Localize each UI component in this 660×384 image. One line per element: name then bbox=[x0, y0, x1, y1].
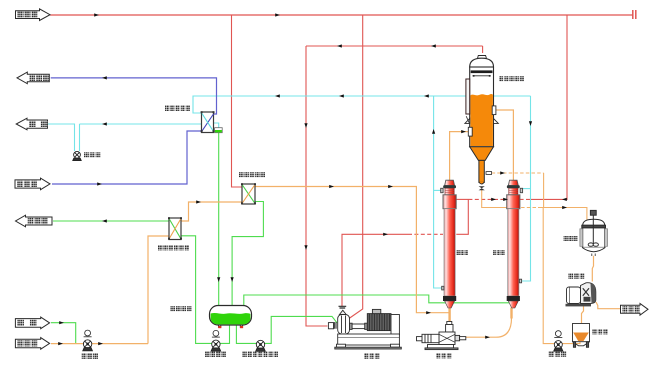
label compressor (yasuoji) bbox=[364, 353, 380, 358]
instrument above feed pump P1 bbox=[84, 330, 92, 337]
wire heater E2 bottom tube bbox=[510, 308, 512, 319]
steam header end terminator bbox=[633, 10, 636, 19]
compressor C1 bbox=[328, 306, 401, 349]
vacuum pump P5 bbox=[73, 151, 81, 160]
tail gas condenser E3 bbox=[201, 111, 215, 132]
flow arrow bbox=[426, 311, 431, 314]
flag tower water out (tashuichu) bbox=[17, 72, 49, 84]
wire seal pot drain to condensate tank bbox=[218, 133, 220, 305]
wire crystals out to flag bbox=[596, 302, 621, 309]
wire centrifuge liquor to mother liquor tank bbox=[582, 306, 584, 323]
heater E1 (left) bbox=[443, 180, 456, 308]
wire mother liquor return riser bbox=[543, 208, 554, 344]
condensate preheater E5 bbox=[168, 217, 182, 239]
flow arrow bbox=[432, 129, 435, 134]
flow arrow bbox=[500, 171, 505, 174]
crystal separator V1 bbox=[465, 56, 498, 191]
flow arrow bbox=[217, 277, 220, 282]
wire vent gas header to condenser bbox=[193, 96, 531, 113]
instrument above mother liquor pump P4 bbox=[554, 331, 562, 338]
wire heater E1 upper vent stub bbox=[434, 189, 441, 191]
flow arrow bbox=[485, 336, 490, 339]
flow arrow bbox=[424, 94, 429, 97]
label feed pump (jinliaobeng) bbox=[82, 354, 99, 359]
flow arrow bbox=[431, 44, 436, 47]
flow arrow bbox=[59, 321, 64, 324]
slurry tank V3 bbox=[580, 210, 608, 256]
wire water in line bbox=[51, 323, 76, 343]
wire preheated feed to heater E1 bottom bbox=[255, 187, 449, 313]
flow arrow bbox=[58, 342, 63, 345]
flow arrow bbox=[275, 94, 280, 97]
label vacuum pump (zhenkongbeng) bbox=[84, 152, 101, 157]
flow arrow bbox=[339, 94, 344, 97]
condensate tank V2 bbox=[210, 306, 252, 329]
label heater E1 (jiareqi) bbox=[457, 250, 469, 255]
wire cooling water out line bbox=[51, 78, 217, 114]
heater E2 (right) bbox=[507, 180, 520, 308]
mother liquor tank V4 bbox=[573, 324, 590, 348]
flag steam in (zhengqijin) bbox=[16, 9, 51, 21]
wire compressed steam riser to heaters bbox=[456, 199, 468, 234]
wire heater shell condensate return to tank bbox=[244, 295, 510, 305]
flow arrow bbox=[304, 123, 307, 128]
flow arrow bbox=[275, 13, 280, 16]
flag tower water in (tashuijin) bbox=[15, 178, 50, 190]
wire compressor discharge riser bbox=[342, 234, 408, 306]
label crystal separator (jiejingfenliqi) bbox=[499, 76, 524, 81]
wire cooling water in line bbox=[52, 131, 202, 184]
label mother liquor tank (muyeguan) bbox=[592, 329, 608, 334]
wire slurry tank to centrifuge bbox=[592, 256, 593, 282]
wire main steam header y15 bbox=[50, 14, 633, 16]
centrifuge M1 bbox=[566, 283, 596, 307]
flow arrow bbox=[98, 342, 103, 345]
flow arrow bbox=[304, 245, 307, 250]
label heater E2 (jiareqi) bbox=[493, 250, 505, 255]
feed pump P1 bbox=[83, 340, 93, 351]
flow arrow bbox=[388, 185, 393, 188]
wire mother liquor tank to pump bbox=[562, 342, 580, 344]
flag feed in (liaoyejin) bbox=[15, 338, 49, 350]
flow arrow bbox=[102, 122, 107, 125]
wire slurry line dashed behind heater E2 bbox=[504, 207, 538, 209]
wire side outlet down leg bbox=[543, 173, 545, 208]
flow arrow bbox=[102, 219, 107, 222]
wire steam branch to steam preheater bbox=[232, 15, 243, 187]
flag water in (shuijin) bbox=[15, 317, 49, 329]
label condensate preheater (lengningshuiyureqi) bbox=[158, 245, 189, 250]
label slurry tank (jingjiangguan) bbox=[564, 236, 578, 241]
flow arrow bbox=[562, 206, 567, 209]
label axial flow pump (zhouliubeng) bbox=[436, 353, 452, 358]
wire steam into heater E1 top nozzle bbox=[456, 198, 470, 200]
label mother liquor pump (muyebeng) bbox=[549, 351, 567, 356]
label centrifuge (lixinji) bbox=[569, 274, 585, 279]
axial flow pump P6 bbox=[417, 322, 466, 350]
wire steam preheater drain to tank bbox=[232, 202, 263, 306]
flag crystal out (jingtichu) bbox=[621, 304, 649, 316]
wire condensate out to flag bbox=[53, 220, 169, 222]
steam preheater E4 bbox=[241, 183, 256, 204]
wire heater E2 riser to separator bbox=[496, 110, 514, 180]
wire desuperheating water line to compressor bbox=[236, 316, 337, 343]
label steam preheater (zhengqiyureqi) bbox=[239, 172, 265, 177]
label condensate tank (lengningshuiguan) bbox=[171, 306, 192, 311]
wire heater E1 bottom tube to axial pump bbox=[448, 308, 450, 326]
wire steam branch to heater shell line bbox=[530, 15, 567, 199]
wire vacuum pump suction drop bbox=[79, 124, 81, 151]
label condensate pump (lengningshuibeng) bbox=[205, 352, 226, 357]
instrument above condensate pump P2 bbox=[212, 330, 220, 337]
wire compressor discharge dashed bbox=[408, 233, 443, 235]
label tail gas condenser (weiqilengningqi) bbox=[165, 106, 190, 111]
wire feed line from flag through feed pump bbox=[51, 343, 148, 345]
wire heater E1 vent riser bbox=[434, 96, 442, 288]
flag condensate water (lengningshui) bbox=[16, 215, 53, 227]
desuperheating water pump P3 bbox=[256, 340, 266, 351]
flow arrow bbox=[337, 44, 342, 47]
wire condensate pump circuit bbox=[181, 236, 230, 344]
flow arrow bbox=[503, 198, 508, 201]
wire heater E2 vent riser bbox=[522, 96, 531, 281]
wire steam branch to compressor suction bbox=[349, 15, 363, 319]
wire heater E1 riser to separator bbox=[450, 132, 469, 180]
wire slurry line into slurry tank bbox=[538, 208, 587, 220]
wire axial pump suction from heater E2 bbox=[466, 318, 512, 337]
heater E1 side nozzles bbox=[441, 188, 444, 290]
wire separator bottom drain bbox=[482, 190, 504, 208]
wire vapor line from separator top bbox=[306, 45, 483, 47]
flow arrow bbox=[196, 200, 201, 203]
wire condenser drain to seal pot bbox=[214, 123, 219, 129]
flow arrow bbox=[97, 182, 102, 185]
flow arrow bbox=[383, 233, 388, 236]
wire separator side outlet dashed bbox=[492, 172, 544, 174]
flow arrow bbox=[231, 277, 234, 282]
condensate pump P2 bbox=[211, 340, 221, 351]
condensate seal pot bbox=[215, 128, 223, 133]
wire vacuum suction from condenser bbox=[80, 123, 202, 125]
wire heater E2 upper vent stub bbox=[523, 188, 531, 190]
flow arrow bbox=[491, 198, 496, 201]
flow arrow bbox=[529, 121, 532, 126]
flow arrow bbox=[329, 185, 334, 188]
wire feed between preheaters bbox=[181, 202, 242, 221]
wire feed riser to condensate preheater bbox=[148, 236, 169, 344]
flow arrow bbox=[562, 198, 567, 201]
wire vapor line separator to compressor suction bbox=[306, 46, 328, 326]
flag vent (paikong) bbox=[16, 118, 47, 130]
wire vent line to flag bbox=[48, 124, 75, 151]
flow arrow bbox=[102, 76, 107, 79]
label desuperheating pump (zhengqiguoreexiaochubeng) bbox=[243, 352, 279, 357]
flow arrow bbox=[94, 13, 99, 16]
wire heater shell steam line dashed bbox=[470, 198, 530, 200]
wire separator top nozzle stub bbox=[482, 46, 484, 53]
flow arrow bbox=[461, 130, 466, 133]
mother liquor pump P4 bbox=[554, 341, 563, 352]
heater E2 side nozzles bbox=[519, 188, 522, 283]
